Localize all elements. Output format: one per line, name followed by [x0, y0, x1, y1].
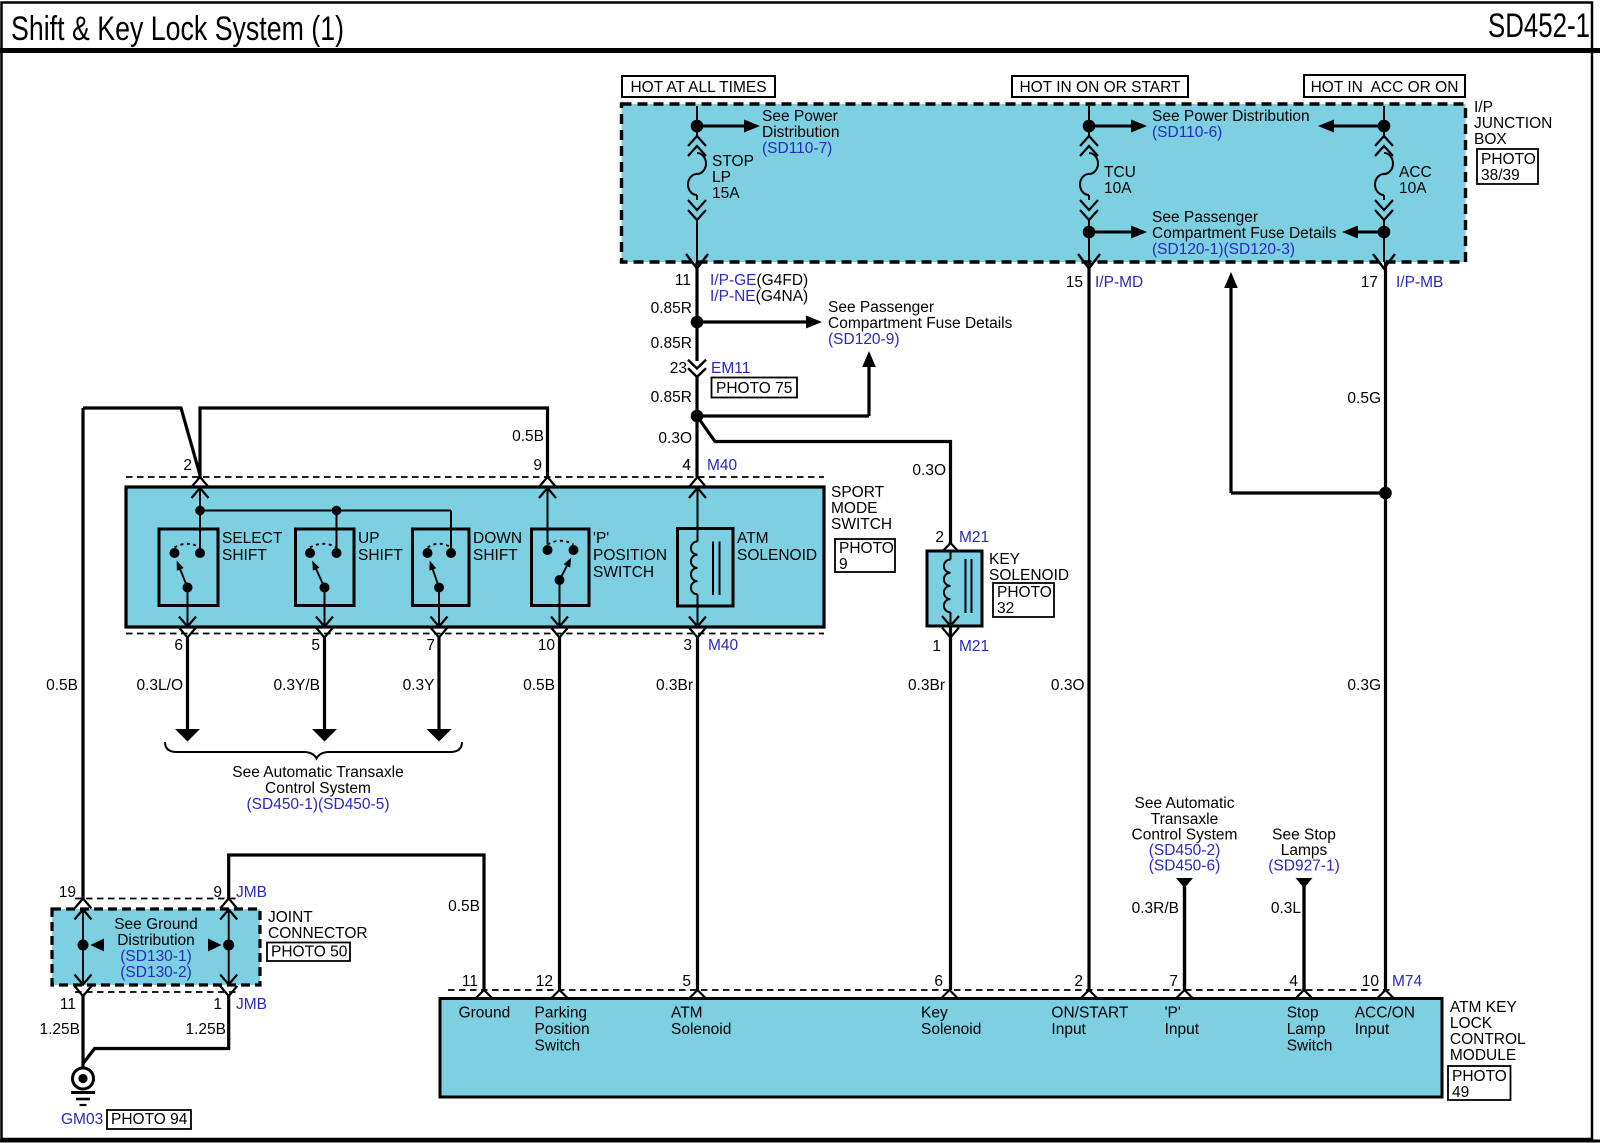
svg-text:Lamp: Lamp	[1287, 1021, 1326, 1038]
svg-text:49: 49	[1452, 1084, 1469, 1101]
svg-text:11: 11	[675, 272, 691, 289]
svg-text:0.3R/B: 0.3R/B	[1132, 900, 1179, 917]
svg-text:2: 2	[1074, 973, 1083, 990]
svg-text:1.25B: 1.25B	[39, 1021, 80, 1038]
svg-text:0.3L: 0.3L	[1271, 900, 1302, 917]
svg-text:SWITCH: SWITCH	[831, 516, 892, 533]
svg-text:2: 2	[935, 529, 944, 546]
svg-text:0.3Br: 0.3Br	[908, 677, 945, 694]
svg-text:See Power: See Power	[762, 108, 838, 125]
svg-text:Input: Input	[1051, 1021, 1086, 1038]
svg-text:(SD450-2): (SD450-2)	[1149, 842, 1221, 859]
svg-text:I/P-MD: I/P-MD	[1095, 274, 1143, 291]
svg-text:12: 12	[536, 973, 553, 990]
svg-text:I/P: I/P	[1474, 99, 1493, 116]
svg-text:CONNECTOR: CONNECTOR	[268, 925, 368, 942]
svg-text:UP: UP	[358, 530, 380, 547]
svg-text:JMB: JMB	[236, 884, 267, 901]
svg-text:0.3Y/B: 0.3Y/B	[273, 677, 320, 694]
svg-text:Key: Key	[921, 1005, 948, 1022]
svg-text:See Ground: See Ground	[114, 916, 198, 933]
svg-text:0.3L/O: 0.3L/O	[136, 677, 183, 694]
svg-text:Lamps: Lamps	[1281, 842, 1328, 859]
svg-text:Control System: Control System	[1132, 827, 1238, 844]
svg-text:0.3G: 0.3G	[1347, 677, 1381, 694]
svg-text:M74: M74	[1392, 973, 1423, 990]
svg-text:(SD450-1)(SD450-5): (SD450-1)(SD450-5)	[247, 796, 390, 813]
svg-text:0.5G: 0.5G	[1347, 390, 1381, 407]
svg-text:Input: Input	[1355, 1021, 1390, 1038]
svg-text:SOLENOID: SOLENOID	[989, 567, 1069, 584]
svg-text:PHOTO: PHOTO	[1452, 1068, 1507, 1085]
svg-text:PHOTO 94: PHOTO 94	[111, 1111, 188, 1128]
svg-text:0.5B: 0.5B	[448, 898, 480, 915]
svg-text:SWITCH: SWITCH	[593, 564, 654, 581]
svg-text:M21: M21	[959, 638, 989, 655]
svg-text:Position: Position	[535, 1021, 590, 1038]
svg-text:I/P-GE(G4FD): I/P-GE(G4FD)	[710, 272, 808, 289]
svg-text:5: 5	[311, 637, 320, 654]
svg-text:SELECT: SELECT	[222, 530, 283, 547]
svg-text:See Power Distribution: See Power Distribution	[1152, 108, 1310, 125]
svg-text:(SD130-2): (SD130-2)	[120, 964, 192, 981]
svg-text:ACC/ON: ACC/ON	[1355, 1005, 1415, 1022]
svg-text:4: 4	[682, 457, 691, 474]
svg-text:10A: 10A	[1399, 180, 1427, 197]
svg-text:HOT IN ACC OR ON: HOT IN ACC OR ON	[1311, 79, 1459, 96]
svg-text:Compartment Fuse Details: Compartment Fuse Details	[1152, 225, 1337, 242]
svg-text:0.5B: 0.5B	[523, 677, 555, 694]
svg-text:KEY: KEY	[989, 551, 1020, 568]
svg-text:(SD120-9): (SD120-9)	[828, 331, 900, 348]
svg-text:TCU: TCU	[1104, 164, 1136, 181]
svg-text:SHIFT: SHIFT	[473, 547, 518, 564]
svg-text:9: 9	[839, 556, 848, 573]
svg-text:STOP: STOP	[712, 153, 754, 170]
svg-text:(SD130-1): (SD130-1)	[120, 948, 192, 965]
svg-text:0.85R: 0.85R	[651, 335, 692, 352]
svg-text:LOCK: LOCK	[1450, 1015, 1493, 1032]
svg-text:EM11: EM11	[711, 360, 750, 377]
svg-text:ATM: ATM	[671, 1005, 703, 1022]
svg-text:PHOTO: PHOTO	[997, 584, 1052, 601]
svg-text:6: 6	[934, 973, 943, 990]
svg-text:Switch: Switch	[1287, 1038, 1333, 1055]
svg-text:LP: LP	[712, 169, 731, 186]
svg-text:32: 32	[997, 600, 1014, 617]
svg-text:SPORT: SPORT	[831, 484, 885, 501]
svg-text:GM03: GM03	[61, 1111, 103, 1128]
svg-text:I/P-NE(G4NA): I/P-NE(G4NA)	[710, 288, 808, 305]
svg-text:MODULE: MODULE	[1450, 1047, 1516, 1064]
svg-text:0.3O: 0.3O	[912, 462, 946, 479]
svg-text:Solenoid: Solenoid	[671, 1021, 731, 1038]
svg-text:1: 1	[213, 996, 222, 1013]
svg-text:M40: M40	[707, 457, 738, 474]
svg-text:15A: 15A	[712, 185, 740, 202]
svg-text:0.3O: 0.3O	[1051, 677, 1085, 694]
svg-text:15: 15	[1066, 274, 1083, 291]
svg-text:Input: Input	[1165, 1021, 1200, 1038]
svg-text:I/P-MB: I/P-MB	[1396, 274, 1443, 291]
svg-text:'P': 'P'	[593, 530, 609, 547]
svg-text:(SD927-1): (SD927-1)	[1268, 858, 1340, 875]
svg-text:0.3O: 0.3O	[658, 430, 692, 447]
svg-text:19: 19	[59, 884, 76, 901]
svg-text:(SD110-7): (SD110-7)	[762, 140, 832, 157]
svg-text:SD452-1: SD452-1	[1488, 7, 1590, 45]
svg-text:See Stop: See Stop	[1272, 827, 1336, 844]
svg-text:CONTROL: CONTROL	[1450, 1031, 1526, 1048]
svg-text:See Automatic Transaxle: See Automatic Transaxle	[232, 764, 403, 781]
svg-text:POSITION: POSITION	[593, 547, 667, 564]
svg-text:2: 2	[183, 457, 192, 474]
svg-text:SOLENOID: SOLENOID	[737, 547, 817, 564]
svg-text:10A: 10A	[1104, 180, 1132, 197]
svg-text:Ground: Ground	[459, 1005, 511, 1022]
svg-text:ACC: ACC	[1399, 164, 1432, 181]
svg-text:PHOTO: PHOTO	[839, 540, 894, 557]
svg-text:9: 9	[533, 457, 542, 474]
svg-text:M40: M40	[708, 637, 739, 654]
svg-text:ATM: ATM	[737, 530, 769, 547]
svg-text:4: 4	[1289, 973, 1298, 990]
svg-text:11: 11	[462, 973, 478, 990]
svg-text:DOWN: DOWN	[473, 530, 522, 547]
svg-text:HOT AT ALL TIMES: HOT AT ALL TIMES	[630, 79, 766, 96]
svg-text:7: 7	[1169, 973, 1178, 990]
svg-text:See Passenger: See Passenger	[828, 299, 934, 316]
svg-text:Solenoid: Solenoid	[921, 1021, 981, 1038]
svg-text:PHOTO 75: PHOTO 75	[716, 380, 792, 397]
svg-text:0.5B: 0.5B	[46, 677, 78, 694]
svg-text:3: 3	[683, 637, 692, 654]
svg-text:0.5B: 0.5B	[512, 428, 544, 445]
svg-text:ATM KEY: ATM KEY	[1450, 999, 1517, 1016]
svg-text:Parking: Parking	[535, 1005, 588, 1022]
svg-text:(SD120-1)(SD120-3): (SD120-1)(SD120-3)	[1152, 241, 1295, 258]
svg-text:5: 5	[682, 973, 691, 990]
svg-text:1: 1	[932, 638, 941, 655]
svg-text:See Automatic: See Automatic	[1135, 795, 1235, 812]
svg-text:Distribution: Distribution	[762, 124, 840, 141]
svg-text:M21: M21	[959, 529, 989, 546]
svg-text:6: 6	[174, 637, 183, 654]
svg-text:SHIFT: SHIFT	[222, 547, 267, 564]
svg-text:Transaxle: Transaxle	[1151, 811, 1218, 828]
svg-text:(SD110-6): (SD110-6)	[1152, 124, 1222, 141]
svg-text:MODE: MODE	[831, 500, 878, 517]
svg-text:0.85R: 0.85R	[651, 389, 692, 406]
svg-text:38/39: 38/39	[1481, 167, 1520, 184]
svg-text:10: 10	[538, 637, 556, 654]
svg-text:ON/START: ON/START	[1051, 1005, 1128, 1022]
svg-text:17: 17	[1361, 274, 1378, 291]
svg-text:7: 7	[426, 637, 435, 654]
svg-text:0.85R: 0.85R	[651, 300, 692, 317]
svg-text:Control System: Control System	[265, 780, 371, 797]
svg-text:1.25B: 1.25B	[185, 1021, 226, 1038]
svg-text:SHIFT: SHIFT	[358, 547, 403, 564]
svg-text:JUNCTION: JUNCTION	[1474, 115, 1552, 132]
svg-text:23: 23	[670, 360, 687, 377]
svg-text:PHOTO: PHOTO	[1481, 151, 1536, 168]
svg-text:9: 9	[213, 884, 222, 901]
svg-text:'P': 'P'	[1165, 1005, 1181, 1022]
svg-text:(SD450-6): (SD450-6)	[1149, 858, 1221, 875]
svg-text:PHOTO 50: PHOTO 50	[271, 944, 348, 961]
svg-text:Compartment Fuse Details: Compartment Fuse Details	[828, 315, 1013, 332]
svg-text:HOT IN ON OR START: HOT IN ON OR START	[1019, 79, 1181, 96]
svg-text:JMB: JMB	[236, 996, 267, 1013]
svg-text:0.3Br: 0.3Br	[656, 677, 693, 694]
svg-text:BOX: BOX	[1474, 131, 1507, 148]
svg-text:Switch: Switch	[535, 1038, 581, 1055]
svg-text:10: 10	[1362, 973, 1380, 990]
svg-text:11: 11	[60, 996, 76, 1013]
svg-text:Stop: Stop	[1287, 1005, 1319, 1022]
svg-text:Shift & Key Lock System (1): Shift & Key Lock System (1)	[11, 10, 344, 48]
svg-text:JOINT: JOINT	[268, 909, 313, 926]
svg-text:See Passenger: See Passenger	[1152, 209, 1258, 226]
svg-text:Distribution: Distribution	[117, 932, 195, 949]
svg-text:0.3Y: 0.3Y	[403, 677, 435, 694]
